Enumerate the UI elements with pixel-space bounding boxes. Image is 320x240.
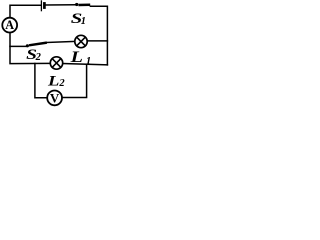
ammeter A circle — [2, 18, 17, 33]
svg-text:1: 1 — [86, 55, 92, 67]
switch S1 contact dot — [75, 3, 78, 6]
svg-text:L: L — [69, 49, 83, 66]
wire S2 blade end to lamp L1 — [47, 41, 75, 42]
voltmeter V circle — [47, 91, 62, 106]
lamp L2 circle — [50, 57, 62, 69]
wire lamp L2 right to right vertical — [63, 64, 108, 65]
svg-text:V: V — [50, 90, 60, 105]
battery short plate — [43, 2, 46, 9]
wire right vertical stub to lamp L1 — [87, 40, 107, 42]
wire left main vertical — [10, 32, 50, 63]
lamp L1 cross — [77, 37, 86, 46]
lamp L2 cross — [52, 59, 61, 68]
svg-text:A: A — [5, 18, 14, 32]
switch S1 blade — [78, 3, 90, 6]
wire battery to switch S1 — [46, 4, 76, 6]
wire left vertical S2 branch — [10, 45, 26, 47]
svg-text:2: 2 — [35, 52, 42, 63]
switch S2 blade — [29, 43, 47, 46]
battery long plate — [40, 0, 42, 11]
svg-text:L: L — [47, 73, 60, 89]
svg-text:1: 1 — [81, 16, 86, 27]
wire S1 right contact to top-right corner — [90, 6, 107, 65]
switch S2 contact dot — [26, 44, 29, 47]
wire top-left corner to ammeter — [10, 5, 41, 18]
lamp L1 circle — [75, 35, 87, 47]
wire voltmeter left leg — [35, 64, 47, 98]
svg-text:2: 2 — [58, 78, 65, 89]
wire voltmeter right leg — [62, 64, 87, 97]
